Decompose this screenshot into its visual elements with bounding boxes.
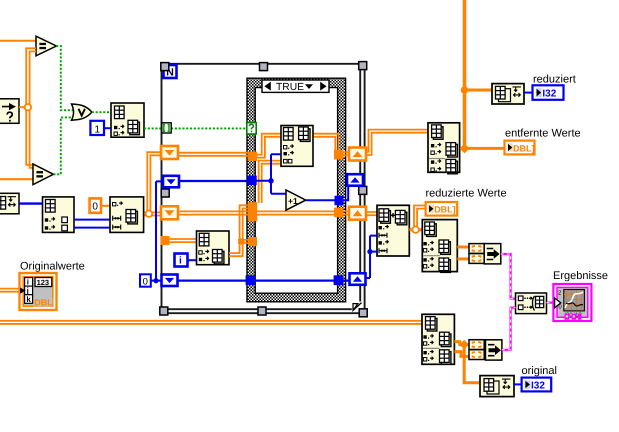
loop selection handle bottom-right corner [359,309,367,317]
wire orange U12 out2 to conversion [457,257,469,260]
array size node (cut at left edge) [0,193,19,214]
svg-text:123: 123 [37,278,50,287]
svg-text:entfernte Werte: entfernte Werte [505,127,581,139]
case tunnel blue bottom right [334,275,344,285]
array size node U10 (reduziert) [492,84,524,104]
svg-text:reduziert: reduziert [533,73,576,85]
I32 indicator reduziert [533,85,564,100]
index array node U12 (reduced values to points) [422,220,457,273]
wire orange double pass-through row y=213 [179,211,349,214]
wire blue index array out1 to insert node [74,219,110,221]
svg-text:DBL]: DBL] [434,205,456,215]
wire orange double: insert node output up to shift register row1 [144,152,161,215]
wire orange double: insert-node output to right tunnel row1 [313,134,349,156]
delete from array node U9 [428,123,460,174]
Ergebnisse label [553,270,608,282]
svg-text:k: k [26,295,31,304]
shift register left row1 (orange, down) [161,146,178,159]
wire blue shift register right row4 up to replace node inputs [365,236,378,278]
shift register left row2 (blue, down) [163,176,179,188]
wire orange constant 0 to insert node [101,205,110,207]
case selector terminal ? [247,123,256,134]
wire orange double: shift register right row1 to delete-from-array node [366,130,428,155]
numeric constant 0 (orange) [90,198,101,212]
build cluster array node U14 [516,293,547,314]
case tunnel orange row1 right [334,150,344,160]
for loop structure border [162,64,366,313]
cluster wire magenta bundle2 to build array [502,308,516,350]
numeric constant 1 [90,121,104,136]
replace node output with junction ring to DBL reduzierte Werte [409,206,425,234]
wire orange to array size node (reduziert) [465,89,493,92]
boolean wire green dashed from build array to loop tunnel [144,127,162,129]
boolean wire green dashed from equal 1 to OR gate [56,46,74,110]
svg-text:I32: I32 [531,381,545,392]
svg-text:1: 1 [95,125,101,136]
wire orange double: case tunnel row1 to insert-node top input [257,134,282,158]
conversion node bottom pair [469,340,484,360]
wire orange from left edge into equal node 1 [0,40,36,42]
svg-text:Originalwerte: Originalwerte [20,261,85,273]
bundle node U13 [484,244,501,264]
shift register left row4 (blue, down) [162,275,178,287]
bundle node U16 [486,340,502,360]
Originalwerte array indicator terminal [20,273,57,310]
loop tunnel orange (bottom left) [161,236,170,245]
svg-text:i: i [179,256,182,267]
svg-text:Ergebnisse: Ergebnisse [553,270,608,282]
comparison node = (equal) U1 [36,36,56,56]
numeric constant 0 (blue, loop init) [140,274,151,287]
boolean wire green dashed loop tunnel to case selector [171,127,247,129]
wire blue index array out2 to insert node [74,227,110,229]
OR gate U3 [72,104,92,120]
svg-text:original: original [522,365,557,377]
loop selection handle top-right [359,62,367,70]
wire blue array size to I32 original [514,383,522,385]
wire orange double: shift register right row3 to replace node [366,212,377,215]
junction ring at insert node output [146,210,153,217]
case tunnel orange lower (pass-through) [248,212,258,222]
wire blue i terminal to in-loop array node [188,259,197,261]
increment node +1 [286,190,306,210]
wire orange U15 out1 to conversion with junction diamond [454,340,469,349]
for loop count terminal N [164,65,177,79]
iteration terminal i [175,254,188,267]
wire orange double from left edge to Originalwerte [0,289,20,292]
case tunnel blue left (row2) [247,176,256,185]
DBL array indicator reduzierte Werte [426,202,458,216]
svg-text:0: 0 [92,202,98,213]
wire blue shift register row2 into case [179,180,247,182]
svg-text:TRUE: TRUE [276,82,304,93]
wire orange U15 out2 to conversion [454,352,469,357]
case tunnel orange row1 left [248,152,257,161]
original label [522,365,557,377]
array size node U17 (original) [480,376,514,397]
loop tunnel boolean (green []) [162,123,171,133]
loop selection handle bottom-middle [258,307,266,315]
reduzierte Werte label [426,187,507,199]
wire blue array size to index array [19,202,43,204]
svg-text:DBL: DBL [34,298,53,308]
junction dot to reduziert branch [461,86,469,94]
wire from search node to junction ring [19,106,25,108]
wire orange double: loop tunnel to in-loop array node [170,239,197,242]
index array node U7 [43,197,75,233]
comparison node = (equal) U2 [33,164,53,185]
reduziert label [533,73,576,85]
insert into array node U6 (in case) [281,126,313,167]
wire orange to DBL array indicator entfernte Werte [466,147,505,150]
wire orange thick vertical from top edge [463,0,467,149]
loop selection handle mid-right [359,186,367,194]
svg-text:+1: +1 [288,196,298,206]
wire orange U12 out1 to conversion [457,246,469,249]
wire orange double long horizontal (original values array) [0,321,422,324]
svg-text:0: 0 [143,276,148,287]
case tunnel orange right (pass-through) [334,208,344,218]
wire orange junction down to array size (original) [464,345,480,383]
case selector label TRUE [262,80,329,93]
wire orange double from in-loop node output to case tunnel with junction [229,205,257,256]
wire blue: +1 output to right tunnel [306,199,335,201]
wire orange from left edge into equal node 2 [0,178,33,180]
I32 indicator original [522,378,552,392]
loop selection handle top-left [161,63,169,71]
shift register left row3 (orange, down) [161,206,178,219]
insert/replace array subset node U8 [110,197,144,233]
conversion node top pair [469,244,484,264]
wire blue: right tunnel up to shift register row2 right [344,180,351,200]
search 1D array node (cut at left edge) [0,99,19,124]
junction ring on array wire [25,104,31,110]
boolean wire green dashed from OR gate to build-array node [92,111,111,113]
loop folded corner bottom-right [352,302,364,312]
shift register right row1 (orange, up) [349,148,366,161]
loop selection handle top-middle [260,63,268,71]
case tunnel orange upper (to insert node lower input) [248,202,258,212]
junction diamond entfernte Werte [460,144,470,154]
wire blue: case tunnel row2 branch to insert node and +1 [256,154,286,194]
loop selection handle mid-left [161,189,169,197]
DBL array indicator entfernte Werte [505,141,535,155]
wire blue constant 0 to shift registers rows 2 and 4 [151,181,163,283]
build array node U4 [111,103,144,137]
cluster wire magenta to Ergebnisse [547,302,555,304]
cluster wire magenta bundle1 to build array [501,254,516,299]
case tunnel orange (unwired in TRUE case) [248,237,257,246]
boolean wire green dashed from equal 2 up to OR gate [53,117,73,174]
wire blue pass-through row y=280 [179,280,351,282]
shift register right row4 (blue, up) [350,273,366,285]
wire orange double: shift register row1 to case tunnel row1 [179,153,248,156]
index array node U15 (original values to points) [422,314,454,364]
wire blue from constant 1 [104,127,111,129]
case structure border (hatched) [247,78,346,302]
in-loop array node U5 (build array) [197,231,230,265]
wire blue array size to I32 reduziert [524,92,533,94]
case tunnel blue bottom left [246,275,256,285]
wire orange double (array) from equal node 1 down to equal node 2 [26,48,36,168]
svg-text:DBL]: DBL] [513,143,535,153]
svg-text:I32: I32 [542,88,556,99]
shift register right row3 (orange, up) [349,207,366,220]
replace array subset node U11 [377,205,409,256]
Originalwerte label [20,261,85,273]
wire orange double: upper tunnel up to insert-node bottom-left input [259,161,281,203]
entfernte Werte label [505,127,581,139]
case tunnel blue right (+1 output) [335,196,344,205]
shift register right row2 (blue, up) [347,174,363,186]
loop selection handle bottom-left [160,307,168,315]
svg-text:reduzierte Werte: reduzierte Werte [426,187,507,199]
Ergebnisse XY graph indicator [553,284,591,321]
